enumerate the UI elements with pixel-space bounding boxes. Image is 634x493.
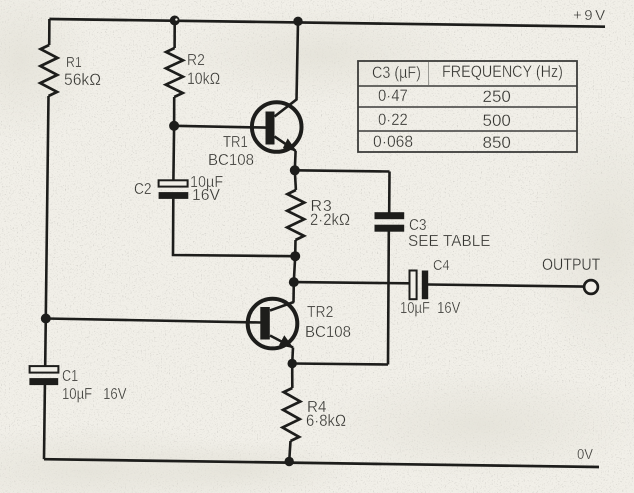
transistor TR1 circle [252, 102, 302, 152]
wire C4 to OUTPUT [428, 285, 584, 287]
wire left rail bottom segment below C1 [43, 385, 47, 459]
label C2 value 10uF [190, 174, 223, 192]
wire +9V top rail [49, 19, 605, 27]
table header FREQUENCY (Hz) [442, 63, 563, 81]
table row1 freq 250 [483, 88, 511, 107]
node TR2 emitter / R4 / C3 return [288, 359, 297, 368]
wire R4 bottom to 0V rail [289, 441, 290, 462]
capacitor C2 top plate (hollow) [159, 180, 188, 186]
node rail/R2 [170, 16, 180, 26]
label +9V supply [573, 8, 608, 25]
TR2 emitter arrowhead [279, 335, 294, 348]
node TR2 collector / C4 [289, 277, 299, 287]
node rail/TR1 collector [293, 17, 302, 26]
wire R2 branch from rail [173, 21, 176, 49]
transistor TR2 circle [248, 299, 298, 349]
label C3 see table [408, 233, 491, 251]
label C2 ref [134, 181, 152, 199]
wire TR2 emitter drop to node [291, 348, 294, 364]
capacitor C4 right plate (solid) [422, 271, 428, 300]
table row3 cap 0.068 [373, 133, 413, 151]
wire TR2 emitter diagonal [270, 336, 293, 348]
table C3/frequency box [358, 61, 577, 152]
label R4 value 6.8k [306, 412, 346, 430]
wire R3 top stem [295, 170, 296, 190]
wire C3 return to TR2 emitter node [292, 364, 388, 365]
node left rail / TR2 base [41, 314, 51, 324]
TR1 emitter arrowhead [283, 138, 297, 151]
label TR2 ref [307, 304, 333, 321]
wire R4 top stem [291, 364, 294, 389]
wire TR1 emitter node to C3 (horizontal) [295, 170, 390, 171]
capacitor C4 left plate (hollow) [410, 271, 417, 300]
resistor R2 10k zigzag [166, 48, 183, 97]
wire left rail middle segment [45, 96, 48, 366]
label R4 ref [307, 399, 326, 417]
label OUTPUT [542, 256, 600, 275]
label C1 value 10uF 16V [62, 386, 126, 404]
label R2 value 10k [187, 70, 220, 88]
label R1 value 56k [64, 71, 101, 89]
transistor TR1 base bar [266, 112, 275, 145]
capacitor C2 bottom plate (solid) [159, 192, 189, 199]
wire C3 bottom stem [387, 232, 390, 365]
node R4 / 0V rail [285, 457, 294, 466]
label C2 voltage 16V [192, 187, 220, 205]
wire C3 top stem [388, 172, 391, 213]
OUTPUT terminal [584, 280, 598, 294]
capacitor C1 bottom plate (solid) [29, 378, 58, 385]
transistor TR2 base bar [260, 307, 270, 340]
wire R3 bottom to TR2 collector node [294, 240, 296, 282]
table row2 cap 0.22 [378, 111, 408, 129]
capacitor C3 top plate [375, 212, 405, 219]
label C3 ref [409, 217, 427, 235]
node TR1 base / R2 / C2 [169, 121, 179, 131]
resistor R3 2.2k zigzag [287, 190, 304, 240]
label R3 ref [311, 198, 333, 216]
node TR1 emitter / R3 / C3 [290, 165, 300, 175]
wire R2 bottom to base node [173, 97, 176, 126]
label R3 value 2.2k [310, 211, 350, 229]
wire TR1 base [174, 126, 266, 128]
node R3 bottom / C2 return [290, 251, 300, 261]
wire left rail top segment [48, 19, 51, 45]
table row3 freq 850 [483, 134, 511, 153]
capacitor C1 top plate (hollow) [30, 366, 59, 373]
wire TR1 emitter diagonal [275, 137, 296, 151]
table header C3 (uF) [372, 64, 421, 82]
wire TR2 collector diagonal [270, 302, 294, 311]
wire C2 top stem [172, 126, 175, 181]
label TR2 type BC108 [305, 324, 351, 342]
wire TR2 collector vertical [292, 282, 295, 302]
label R1 ref [66, 55, 82, 72]
label 0V rail [577, 448, 593, 464]
wire TR1 collector vertical [297, 21, 299, 100]
wire TR1 emitter drop to node [293, 151, 296, 171]
label C4 ref [433, 259, 450, 275]
label C4 value 10uF 16V [400, 300, 460, 317]
wire 0V bottom rail [44, 459, 599, 467]
wire TR2 collector node to C4 [294, 282, 410, 283]
label R2 ref [187, 52, 205, 69]
capacitor C3 bottom plate [375, 225, 405, 232]
label TR1 ref [223, 134, 248, 151]
wire C2 bottom stem to R3 bottom node [173, 199, 295, 257]
label TR1 type BC108 [208, 152, 254, 170]
label C1 ref [62, 368, 78, 385]
resistor R1 56k zigzag [40, 45, 57, 96]
wire TR2 base from left rail [46, 319, 261, 323]
wire TR1 collector diagonal [275, 99, 297, 116]
resistor R4 6.8k zigzag [283, 388, 301, 441]
table row1 cap 0.47 [378, 87, 408, 105]
table row2 freq 500 [483, 112, 511, 131]
